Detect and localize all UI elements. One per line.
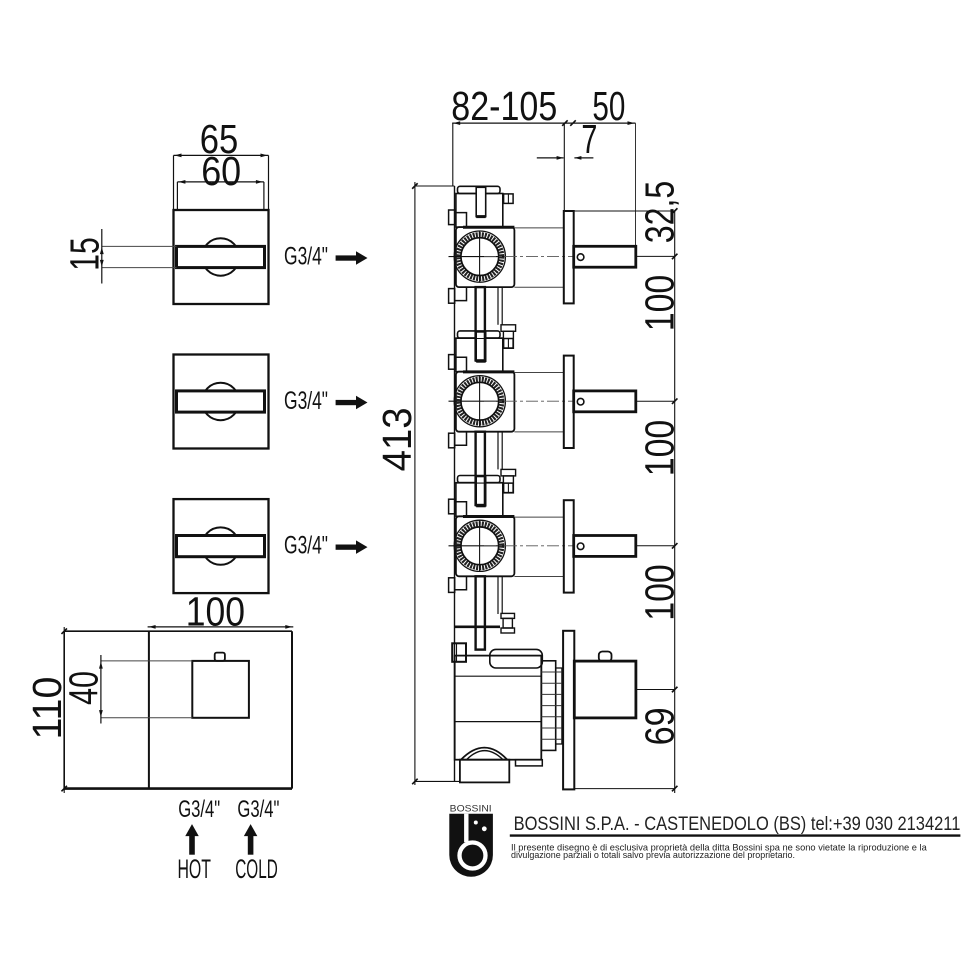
dimension 100 line (front view) — [148, 625, 294, 629]
chain extension at handle 3 — [636, 543, 678, 549]
dimension 65 label — [200, 116, 239, 162]
dimension 413 label — [374, 407, 420, 471]
trim plate 2 (front view square) — [174, 355, 269, 449]
handle bar 1 (front view) — [177, 246, 265, 267]
dimension 15 lines — [100, 229, 177, 284]
svg-text:G3/4": G3/4" — [284, 387, 328, 415]
trim plate 1 (front view square) — [174, 210, 269, 304]
label HOT — [177, 854, 211, 884]
svg-text:COLD: COLD — [235, 854, 278, 884]
valve side tab 3 — [504, 483, 513, 493]
svg-text:82-105: 82-105 — [451, 83, 557, 129]
footer rule — [510, 834, 961, 836]
svg-text:BOSSINI: BOSSINI — [450, 804, 492, 815]
mixer supply stub — [501, 613, 515, 633]
svg-text:100: 100 — [637, 275, 683, 332]
outlet arrow 2 — [336, 396, 368, 410]
dimension 60 line — [177, 180, 264, 184]
label G3/4" cold inlet — [237, 796, 279, 823]
valve crosshair 1 — [449, 231, 505, 283]
dimension 15 label — [62, 237, 108, 270]
svg-text:60: 60 — [201, 148, 241, 194]
supply lines below valve 3 — [498, 576, 502, 614]
right dimension chain rail — [674, 211, 676, 793]
handle 3 (side view) — [574, 536, 636, 557]
module joint line 2 — [455, 482, 514, 484]
dimension 65 extension lines — [174, 155, 269, 210]
dimension 40 lines — [99, 655, 192, 724]
dimension 7 label — [581, 116, 597, 162]
valve cartridge circles 1 — [454, 231, 505, 282]
svg-text:69: 69 — [637, 707, 683, 745]
valve top flange 2 — [456, 331, 503, 372]
mixer knob (side view) — [574, 652, 636, 718]
supply lines below valve 1 — [498, 287, 502, 325]
mixer inlet line — [455, 625, 500, 628]
stub connector below valve 1 — [501, 325, 516, 349]
handle bar 2 (front view) — [177, 391, 265, 412]
dimension 69 label — [637, 707, 683, 745]
mixer left nut — [452, 643, 466, 662]
dimension 110 label — [24, 677, 70, 740]
mixer body (side view) — [455, 656, 542, 760]
dimension 110 ticks — [61, 627, 66, 793]
svg-text:32,5: 32,5 — [637, 181, 683, 244]
valve cartridge circles 3 — [454, 520, 505, 571]
riser pipe below valve 1 — [476, 287, 485, 360]
mounting bracket lower 3 — [449, 576, 467, 592]
dimension 40 label — [60, 671, 106, 705]
mixer cartridge stack — [541, 661, 562, 751]
valve body 1 (side view) — [456, 227, 515, 287]
dimension 100 label (front view) — [186, 589, 245, 635]
dimension 82-105 label — [451, 83, 557, 129]
dimension 65 line — [174, 154, 269, 158]
footer legal text line 2 — [511, 850, 795, 860]
svg-text:BOSSINI S.P.A. - CASTENEDOLO (: BOSSINI S.P.A. - CASTENEDOLO (BS) tel:+3… — [514, 813, 961, 835]
svg-text:413: 413 — [374, 407, 420, 471]
valve crosshair 3 — [449, 520, 505, 572]
outlet arrow 3 — [336, 540, 368, 554]
chain extension bottom — [574, 786, 677, 792]
dimension 60 extension lines — [177, 182, 264, 210]
valve centerline 2 — [484, 400, 578, 402]
chain extension at handle 4 — [636, 687, 678, 693]
svg-text:HOT: HOT — [177, 854, 211, 884]
chain extension at handle 1 — [636, 254, 678, 260]
valve crosshair 2 — [449, 375, 505, 427]
valve side tab 2 — [504, 339, 513, 349]
thermostat trim plate left edge — [148, 631, 150, 788]
valve top flange 3 — [456, 476, 503, 517]
svg-text:G3/4": G3/4" — [284, 242, 328, 270]
stub connector below valve 2 — [501, 469, 516, 493]
svg-text:100: 100 — [637, 564, 683, 621]
svg-text:divulgazione parziali o totali: divulgazione parziali o totali salvo pre… — [511, 850, 795, 860]
mounting bracket upper 3 — [449, 499, 467, 516]
valve body 2 (side view) — [456, 372, 515, 432]
thermostat knob stub — [215, 653, 225, 661]
mounting bracket lower 1 — [449, 287, 467, 303]
dimension 100 label (chain 2) — [637, 420, 683, 477]
dimension 7 lines — [537, 156, 594, 160]
Bossini logo mark — [449, 814, 493, 877]
thermostat knob (front view) — [192, 661, 249, 718]
handle 2 (side view) — [574, 391, 636, 412]
handle circle 3 (front view) — [202, 527, 239, 564]
mixer top cap — [490, 649, 543, 668]
dimension 100 label (chain 3) — [637, 564, 683, 621]
label G3/4" outlet 2 — [284, 387, 328, 415]
footer company text — [514, 813, 961, 835]
mounting bracket lower 2 — [449, 432, 467, 448]
Bossini logo wordmark — [450, 804, 492, 815]
valve top flange 1 — [456, 186, 503, 227]
label COLD — [235, 854, 278, 884]
valve centerline 1 — [484, 256, 578, 258]
svg-text:100: 100 — [637, 420, 683, 477]
footer legal text line 1 — [511, 842, 928, 852]
riser pipe below valve 2 — [476, 432, 485, 505]
handle 1 (side view) — [574, 246, 636, 267]
rough-in body left rail — [454, 186, 456, 781]
valve side tab 1 — [504, 194, 513, 204]
trim sleeve lines 1 — [514, 228, 563, 287]
wall plate 3 (side view) — [564, 500, 574, 592]
dimension 50 label — [592, 83, 625, 129]
top dimension line — [452, 120, 635, 126]
handle bar 3 (front view) — [177, 536, 265, 557]
built-in box rear plate (front view) — [64, 631, 292, 788]
label G3/4" outlet 1 — [284, 242, 328, 270]
wall plate 4 (side view) — [563, 631, 574, 790]
module joint line 1 — [455, 338, 514, 340]
svg-text:100: 100 — [186, 589, 245, 635]
mixer outlet arch — [461, 748, 507, 760]
svg-text:G3/4": G3/4" — [237, 796, 279, 823]
trim sleeve lines 3 — [514, 517, 563, 576]
mixer outlet pipe — [460, 760, 509, 783]
trim sleeve lines 2 — [514, 373, 563, 432]
valve cartridge circles 2 — [454, 376, 505, 427]
handle circle 1 (front view) — [202, 238, 239, 275]
hot inlet arrow — [185, 824, 199, 855]
valve body 3 (side view) — [456, 516, 515, 576]
label G3/4" hot inlet — [178, 796, 220, 823]
mounting bracket upper 2 — [449, 355, 467, 372]
dimension 413 line and ticks — [412, 182, 460, 785]
svg-text:G3/4": G3/4" — [178, 796, 220, 823]
cold inlet arrow — [244, 824, 258, 855]
mixer foot — [516, 760, 543, 766]
valve centerline 3 — [484, 545, 578, 547]
trim plate 3 (front view square) — [174, 499, 269, 593]
chain extension top of plate — [574, 208, 678, 214]
svg-text:7: 7 — [581, 116, 597, 162]
wall plate 1 (side view) — [564, 211, 574, 303]
riser pipe below valve 3 — [476, 576, 485, 649]
supply lines below valve 2 — [498, 432, 502, 470]
svg-text:40: 40 — [60, 671, 106, 705]
dimension 100 label (chain 1) — [637, 275, 683, 332]
mounting bracket upper 1 — [449, 210, 467, 227]
wall plate 2 (side view) — [564, 356, 574, 448]
dimension 60 label — [201, 148, 241, 194]
chain extension at handle 2 — [636, 398, 678, 404]
top dimension extension lines — [453, 123, 636, 256]
dimension 32,5 label — [637, 181, 683, 244]
svg-text:G3/4": G3/4" — [284, 531, 328, 559]
handle circle 2 (front view) — [202, 383, 239, 420]
label G3/4" outlet 3 — [284, 531, 328, 559]
outlet arrow 1 — [336, 251, 368, 265]
